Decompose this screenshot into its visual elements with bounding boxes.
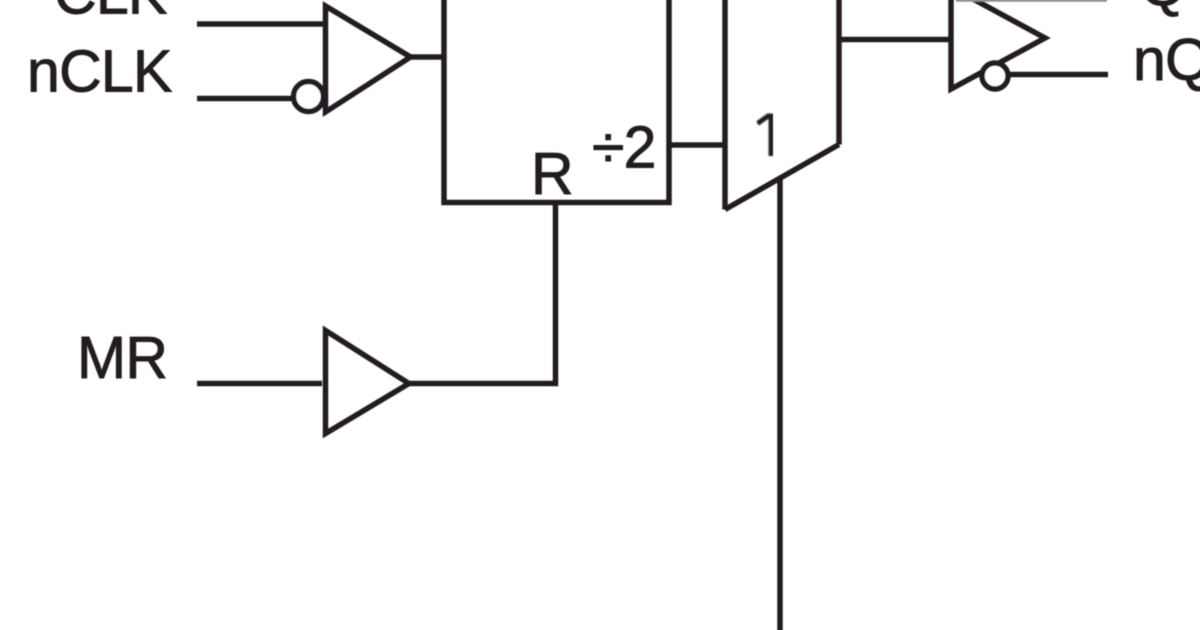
wire U1 output to divider box [411, 54, 445, 60]
bubble on nCLK input of U1 [294, 82, 324, 112]
svg-text:R: R [531, 141, 573, 207]
output driver U4 triangle, top cut off [951, 0, 1045, 89]
svg-text:MR: MR [77, 325, 167, 391]
wire mux output to output driver U4 [839, 37, 949, 43]
mux U3 right edge [836, 0, 842, 145]
wire MR input [197, 381, 322, 387]
wire U5 output to R pin of divider [409, 203, 556, 384]
wire CLK input [197, 21, 325, 27]
wire nQ output [1008, 72, 1108, 78]
svg-text:CLK: CLK [54, 0, 167, 27]
divider box U2 (÷2), top edge cut off [444, 0, 669, 203]
bubble on nQ output of U4 [982, 63, 1008, 89]
wire Q output (top, mostly cut off) [956, 0, 1107, 2]
svg-text:÷2: ÷2 [592, 115, 656, 181]
wire mux select line [777, 178, 783, 630]
svg-text:nCLK: nCLK [27, 39, 172, 105]
wire nCLK input [197, 96, 292, 102]
mux U3 left edge [722, 0, 728, 210]
svg-text:Q: Q [1140, 0, 1185, 19]
label 1 mux input (drawn: stem + flag, no serif) [758, 114, 772, 157]
buffer U1 input differential receiver [326, 6, 411, 112]
wire divider output to mux input 1 [669, 142, 723, 148]
buffer U5 MR input [326, 331, 410, 434]
svg-text:nQ: nQ [1133, 27, 1200, 93]
mux U3 bottom diagonal [725, 145, 839, 210]
